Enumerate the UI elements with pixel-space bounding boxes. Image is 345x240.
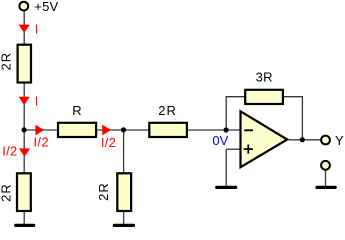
wire <box>23 130 25 173</box>
wire <box>225 97 227 130</box>
svg-text:I/2: I/2 <box>34 134 49 149</box>
power terminal +5V <box>19 0 58 14</box>
wire <box>225 149 227 186</box>
wire <box>23 212 25 224</box>
wire <box>284 96 303 98</box>
resistor 2R (top left, vertical) <box>0 45 31 83</box>
ground (bottom left) <box>16 224 34 227</box>
output reference terminal <box>321 161 330 170</box>
op-amp U1 <box>241 111 288 167</box>
svg-text:R: R <box>72 103 81 118</box>
wire <box>226 96 245 98</box>
wire <box>188 129 241 131</box>
wire <box>325 171 327 186</box>
node D (output junction) <box>300 137 305 142</box>
svg-text:2R: 2R <box>0 183 14 202</box>
wire <box>23 11 25 45</box>
current arrow I/2 (right, after node A) <box>34 125 49 150</box>
resistor 2R (bottom left, vertical) <box>0 173 31 211</box>
node B (middle junction) <box>121 127 126 132</box>
wire <box>23 83 25 131</box>
svg-text:I/2: I/2 <box>101 135 116 150</box>
resistor 2R (horizontal) <box>149 103 187 137</box>
node C (inverting input, 0V) <box>212 127 228 147</box>
wire <box>123 130 125 174</box>
svg-text:Y: Y <box>335 133 344 148</box>
current arrow I (below 2R) <box>19 93 39 108</box>
svg-text:3R: 3R <box>256 70 273 85</box>
wire <box>289 139 321 141</box>
svg-text:0V: 0V <box>212 133 228 148</box>
wire <box>301 96 303 140</box>
wire <box>123 212 125 224</box>
wire <box>226 148 241 150</box>
wire <box>24 129 58 131</box>
svg-text:I: I <box>35 93 39 108</box>
ground (bottom middle) <box>114 224 133 227</box>
ground (output reference) <box>317 186 335 189</box>
wire <box>97 129 150 131</box>
svg-text:2R: 2R <box>158 103 177 118</box>
svg-text:2R: 2R <box>96 182 111 201</box>
current arrow I/2 (right, after R) <box>101 125 116 150</box>
resistor R (horizontal) <box>58 103 96 137</box>
current arrow I (top) <box>19 21 39 36</box>
resistor 3R (feedback, horizontal) <box>245 70 283 104</box>
node A (left junction) <box>22 127 27 132</box>
output terminal Y <box>321 133 344 148</box>
svg-text:I: I <box>35 21 39 36</box>
current arrow I/2 (down, left branch) <box>2 144 30 159</box>
svg-text:I/2: I/2 <box>2 144 17 159</box>
svg-text:+5V: +5V <box>34 0 58 14</box>
svg-text:2R: 2R <box>0 52 14 71</box>
resistor 2R (bottom middle, vertical) <box>96 173 131 211</box>
ground (op-amp non-inverting input) <box>217 186 236 189</box>
